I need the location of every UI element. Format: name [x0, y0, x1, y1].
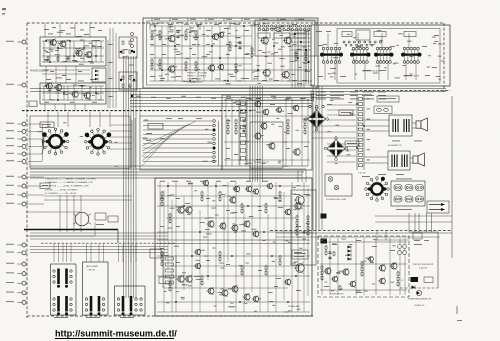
transistor Q430 — [293, 202, 301, 210]
switch box captions — [54, 316, 134, 319]
wire output B — [364, 141, 422, 175]
transistor Q401 — [176, 206, 184, 214]
transistor Q507 — [390, 262, 398, 270]
transistor Q301 — [254, 100, 261, 107]
rotary switch S2 input selector R — [85, 128, 112, 155]
power supply sub-box — [250, 122, 283, 168]
protection relay contacts — [398, 245, 407, 255]
lever switch S12a — [90, 296, 93, 315]
transistor Q208 — [217, 64, 224, 71]
resistor R631 — [279, 255, 281, 261]
input terminal J17 REC L — [6, 281, 26, 285]
transistor Q402 — [184, 206, 192, 214]
resistor R242 — [229, 46, 231, 52]
input terminal J5 TAPE — [6, 137, 26, 141]
resistor R402 — [227, 124, 229, 130]
resistor R432 — [304, 124, 306, 130]
resistor R591 — [201, 275, 203, 281]
resistor R822 — [361, 266, 363, 272]
bottom dashed rail right — [270, 231, 452, 238]
power indicator LED D601 — [408, 290, 432, 300]
thick ground rail — [24, 230, 118, 244]
resistor R433 — [304, 129, 306, 135]
output transformer T2 box — [388, 151, 410, 170]
resistor R573 — [161, 261, 163, 267]
monitor switch box 3 outline — [115, 286, 146, 315]
capacitor C403 — [242, 129, 245, 133]
resistor R611 — [241, 265, 243, 271]
tick mark right margin — [457, 306, 462, 321]
resistor R632 — [279, 260, 281, 266]
record selector dashed feed bus — [30, 233, 176, 253]
capacitor C802 — [328, 256, 331, 260]
switch matrix inner outline — [337, 29, 440, 84]
tape switch box 1 outline — [51, 264, 77, 315]
transistor Q304 — [275, 107, 281, 113]
wire center vertical bundle — [250, 86, 263, 182]
resistor R841 — [321, 265, 323, 271]
transistor Q422 — [202, 180, 209, 187]
resistor R423 — [287, 129, 289, 135]
resistor R521 — [201, 191, 203, 197]
fuse F1 — [374, 106, 392, 114]
resistor R421 — [287, 119, 289, 125]
wire phono inter-channel links — [42, 66, 90, 110]
transistor Q207 — [207, 64, 215, 72]
wire output A — [364, 120, 416, 131]
switch matrix group drop wires — [325, 33, 416, 80]
control amp top border ticks — [152, 18, 304, 21]
phono ch1 value labels — [43, 32, 102, 65]
transistor Q403 — [229, 196, 237, 204]
resistor R801 — [325, 245, 327, 251]
input terminal J13 MIC L — [6, 243, 26, 247]
resistor R713 — [307, 225, 309, 231]
resistor R291 — [195, 61, 197, 67]
rectifier diode stack — [348, 246, 352, 261]
control amp block inner outline — [147, 21, 315, 85]
transistor Q421 — [194, 249, 201, 256]
transistor Q417 — [231, 285, 239, 293]
resistor R201 — [151, 30, 153, 36]
lever switch S12b — [98, 296, 101, 315]
resistor R832 — [397, 276, 399, 282]
resistor R542 — [241, 208, 243, 214]
center component column — [239, 100, 247, 165]
transistor Q104 — [84, 51, 92, 59]
input terminal J18 REC R — [6, 291, 26, 295]
transistor Q204 — [260, 36, 268, 45]
switch matrix captions — [316, 30, 445, 79]
input terminal J10 REC 2 — [6, 184, 26, 188]
muting aux boxes — [95, 213, 118, 225]
connector strip ladder — [356, 96, 370, 170]
tape monitor switch sub-box — [255, 20, 316, 56]
legend area wires — [26, 177, 132, 232]
input terminal J7 DIN — [6, 152, 26, 156]
frame dashed bottom rail — [27, 315, 315, 317]
resistor R232 — [195, 35, 197, 41]
resistor R501 — [161, 191, 163, 197]
lever switch S11b — [65, 269, 68, 288]
transistor Q202 — [211, 33, 219, 41]
protection block wires — [375, 231, 425, 307]
resistor R511 — [169, 213, 171, 219]
power amp caption box — [288, 250, 308, 308]
capacitor C202 — [176, 35, 179, 39]
capacitor C101 — [66, 56, 69, 60]
bus wires mid horizontal — [30, 89, 446, 107]
wire drops to top rail — [44, 23, 290, 37]
input terminal J14 MIC R — [6, 251, 26, 255]
resistor R412 — [235, 124, 237, 130]
transistor Q506 — [378, 264, 386, 272]
switch matrix header component boxes — [342, 30, 416, 46]
resistor R111 — [57, 56, 59, 62]
resistor R562 — [279, 196, 281, 202]
resistor R231 — [195, 30, 197, 36]
resistor R321 — [305, 51, 307, 57]
filter amp block outline — [222, 95, 312, 170]
transistor Q416 — [221, 289, 229, 297]
power supply block outline — [318, 236, 409, 297]
rec head connector ladder — [150, 249, 176, 288]
resistor R252 — [251, 52, 253, 58]
transistor Q210 — [281, 70, 289, 79]
transistor Q424 — [284, 208, 291, 215]
output transformer T1 box — [389, 115, 412, 136]
resistor R701 — [296, 215, 298, 221]
resistor R602 — [219, 256, 221, 262]
wire left vertical bundle — [110, 28, 136, 298]
resistor R531 — [219, 191, 221, 197]
resistor R851 — [339, 285, 341, 291]
resistor R552 — [265, 208, 267, 214]
transistor Q409 — [231, 224, 239, 232]
transistor Q410 — [243, 220, 251, 228]
resistor R581 — [169, 281, 171, 287]
resistor R821 — [361, 261, 363, 267]
resistor R271 — [159, 59, 161, 65]
headphone jack plug symbols — [427, 201, 449, 213]
muting switch M1 — [73, 212, 91, 226]
legend notes block — [45, 178, 97, 195]
resistor R572 — [161, 256, 163, 262]
switch matrix left feed wires — [290, 30, 311, 88]
resistor R403 — [227, 129, 229, 135]
corner registration speck — [2, 8, 6, 15]
resistor R411 — [235, 119, 237, 125]
resistor R281 — [185, 61, 187, 67]
protection circuit outline — [400, 232, 438, 288]
input terminal J2 TUNER — [6, 83, 26, 87]
transistor Q411 — [252, 230, 259, 237]
resistor R272 — [159, 64, 161, 70]
resistor R251 — [251, 47, 253, 53]
transistor Q426 — [194, 263, 201, 270]
power amp mid division — [157, 240, 310, 244]
input terminal J12 GND — [6, 202, 26, 206]
transistor Q302 — [262, 108, 269, 115]
lever switch S11a — [57, 269, 60, 288]
capacitor C402 — [242, 124, 245, 128]
input terminal J3 PH 1 — [6, 122, 26, 126]
transistor Q106 — [54, 84, 62, 92]
resistor R712 — [307, 220, 309, 226]
resistor R571 — [161, 251, 163, 257]
resistor R561 — [279, 191, 281, 197]
resistor R714 — [307, 230, 309, 236]
transistor Q306 — [254, 132, 262, 140]
speaker B terminal board — [391, 179, 425, 210]
lever switch S11d — [65, 296, 68, 315]
phono eq amp block channel-2 outline — [40, 83, 106, 104]
transistor Q423 — [266, 183, 273, 190]
website caption http://summit-museum.de.tl/ — [55, 329, 177, 339]
wire inter-block column — [108, 40, 140, 116]
control amp legend text rows — [187, 73, 208, 84]
input terminal J4 PH 2 — [6, 130, 26, 134]
lever switch S11c — [57, 296, 60, 315]
speaker SP1 A left — [416, 118, 427, 131]
resistor R823 — [361, 271, 363, 277]
resistor R704 — [296, 230, 298, 236]
switch box 1 contacts — [53, 270, 72, 311]
input terminal J19 DIN — [6, 300, 26, 304]
frame dashed top rail — [27, 22, 444, 24]
diode bridge D101 box — [92, 68, 106, 82]
resistor R711 — [307, 215, 309, 221]
switch box 3 contacts — [117, 298, 142, 311]
capacitor C401 — [242, 119, 245, 123]
rotary switch S3 speaker selector — [365, 177, 390, 202]
transistor Q305 — [260, 122, 268, 130]
balance potentiometer VR1 front-rear balance — [305, 107, 329, 131]
resistor R302 — [235, 68, 237, 74]
indicator diode D600 — [412, 286, 416, 290]
transistor Q209 — [262, 68, 270, 77]
transistor Q308 — [292, 148, 300, 156]
switch feed verticals — [54, 244, 136, 262]
resistor R212 — [159, 35, 161, 41]
balance potentiometer VR2 master volume — [324, 137, 348, 161]
block B left coupling terminals — [131, 33, 134, 98]
transistor Q503 — [331, 276, 338, 283]
filter amp labels — [226, 98, 308, 167]
resistor R221 — [185, 30, 187, 36]
wire phono ch1 internals — [42, 41, 104, 62]
mid-right wires — [312, 100, 356, 164]
transistor Q206 — [167, 65, 175, 73]
input terminal J9 REC 1 — [6, 175, 26, 179]
transistor Q405 — [245, 185, 252, 192]
resistor R502 — [161, 196, 163, 202]
resistor R842 — [321, 270, 323, 276]
transistor Q412 — [294, 194, 304, 205]
transistor Q406 — [252, 188, 259, 195]
transistor Q420 — [294, 262, 304, 273]
input terminal J16 PB R — [6, 272, 26, 276]
transistor Q307 — [268, 142, 276, 150]
transistor Q418 — [243, 293, 251, 301]
resistor R811 — [333, 251, 335, 257]
transistor Q413 — [176, 275, 184, 283]
input terminal J15 PB L — [6, 262, 26, 266]
speaker system A label box — [377, 96, 399, 102]
frame dashed right rail — [443, 23, 445, 92]
loudness box — [40, 122, 54, 128]
function switch fan wires — [142, 120, 219, 166]
bus label marks — [136, 96, 306, 99]
resistor R512 — [169, 218, 171, 224]
selector fan wires — [28, 112, 135, 168]
resistor R262 — [151, 64, 153, 70]
switch matrix block outline — [311, 25, 450, 86]
resistor R401 — [227, 119, 229, 125]
phono ch2 value labels — [44, 78, 102, 103]
ground lug box — [40, 183, 50, 189]
thermal breaker dark blocks — [321, 214, 328, 244]
transistor Q404 — [233, 185, 240, 192]
transistor Q102 — [58, 40, 66, 48]
resistor R101 — [47, 56, 49, 62]
resistor R601 — [219, 251, 221, 257]
lever switch S13a — [122, 296, 125, 315]
resistor R551 — [265, 203, 267, 209]
resistor R592 — [201, 280, 203, 286]
resistor R292 — [195, 66, 197, 72]
wire right vertical bundle — [313, 86, 322, 230]
capacitor C201 — [176, 30, 179, 34]
transistor Q415 — [207, 287, 215, 295]
driver column labels — [294, 194, 314, 262]
transistor Q201 — [167, 34, 175, 42]
transistor Q419 — [252, 295, 259, 302]
transistor Q108 — [83, 92, 91, 100]
resistor R532 — [219, 196, 221, 202]
resistor R211 — [159, 30, 161, 36]
selector section outline — [30, 116, 130, 168]
resistor R622 — [265, 270, 267, 276]
transistor Q103 — [75, 49, 83, 57]
power amp wires — [157, 182, 310, 312]
resistor R322 — [305, 56, 307, 62]
resistor R612 — [241, 270, 243, 276]
resistor R301 — [235, 63, 237, 69]
transistor Q203 — [217, 31, 224, 38]
driver column box — [291, 190, 316, 265]
volume level light box — [325, 174, 352, 201]
resistor R241 — [229, 41, 231, 47]
corner step box bottom-left of phono block — [29, 101, 37, 107]
power amp block outline — [155, 178, 312, 316]
transistor Q504 — [349, 280, 356, 287]
input terminal J11 DIN O — [6, 193, 26, 197]
transistor Q303 — [292, 104, 299, 111]
resistor R503 — [161, 201, 163, 207]
resistor R831 — [397, 271, 399, 277]
resistor R621 — [265, 265, 267, 271]
capacitor C212 — [238, 46, 241, 50]
transistor Q502 — [342, 268, 350, 276]
capacitor C801 — [328, 251, 331, 255]
resistor R222 — [185, 35, 187, 41]
protection circuit texts — [413, 240, 434, 270]
control amp value labels — [150, 22, 310, 84]
wire phono ch2 internals — [42, 86, 104, 100]
transistor Q425 — [284, 278, 291, 285]
input terminal J1 AUX — [6, 40, 26, 44]
wire corridor rotary to power amp — [30, 166, 308, 182]
bus thick dashed AC line — [22, 110, 252, 112]
input terminal J6 AUX 2 — [6, 145, 26, 149]
transistor Q205 — [283, 36, 291, 45]
transistor Q505 — [367, 256, 373, 262]
phono eq amp caption — [30, 70, 49, 73]
function fan labels — [142, 118, 217, 162]
resistor R541 — [241, 203, 243, 209]
legend rows under switch matrix — [311, 91, 450, 101]
control amp block outer outline — [143, 18, 318, 88]
resistor R311 — [295, 51, 297, 57]
resistor R282 — [185, 66, 187, 72]
relay column wires — [375, 96, 452, 258]
transistor Q101 — [49, 39, 57, 47]
switch matrix wiper bars — [320, 47, 422, 63]
transistor Q105 — [45, 82, 53, 90]
resistor R703 — [296, 225, 298, 231]
filter amp wires — [224, 98, 310, 166]
wires legend to muting — [26, 212, 95, 236]
speaker SP2 B left — [413, 153, 424, 166]
wire control amp internals — [150, 26, 312, 81]
resistor R202 — [151, 35, 153, 41]
resistor R802 — [325, 250, 327, 256]
transistor Q508 — [378, 277, 385, 284]
phono eq amp block channel-1 outline — [40, 37, 106, 66]
switch box 2 contacts — [85, 298, 104, 311]
resistor R261 — [151, 59, 153, 65]
inter-stage ladder between block A and B — [119, 37, 137, 90]
transistor Q414 — [184, 275, 192, 283]
speaker selector caption — [358, 173, 370, 177]
xpot label boxes — [309, 105, 359, 146]
resistor R422 — [287, 124, 289, 130]
lever switch S13b — [130, 296, 133, 315]
transistor Q501 — [324, 267, 332, 275]
transistor Q407 — [207, 220, 215, 228]
resistor R431 — [304, 119, 306, 125]
transistor Q408 — [219, 222, 227, 230]
resistor R833 — [397, 281, 399, 287]
transistor Q107 — [71, 90, 79, 98]
resistor R702 — [296, 220, 298, 226]
photocopy grain overlay — [0, 0, 1, 1]
power supply block wires — [320, 238, 407, 296]
capacitor C211 — [238, 41, 241, 45]
resistor R312 — [295, 56, 297, 62]
rotary switch S1 input selector L — [42, 128, 69, 155]
choke L5 — [401, 277, 433, 283]
power amp labels — [160, 181, 305, 313]
function switch fan outline — [140, 116, 222, 170]
frame dashed left rail — [26, 23, 28, 318]
resistor R522 — [201, 196, 203, 202]
power supply ladders — [0, 0, 1, 1]
resistor R413 — [235, 129, 237, 135]
input terminal J8 TV — [6, 160, 26, 164]
resistor R582 — [169, 286, 171, 292]
